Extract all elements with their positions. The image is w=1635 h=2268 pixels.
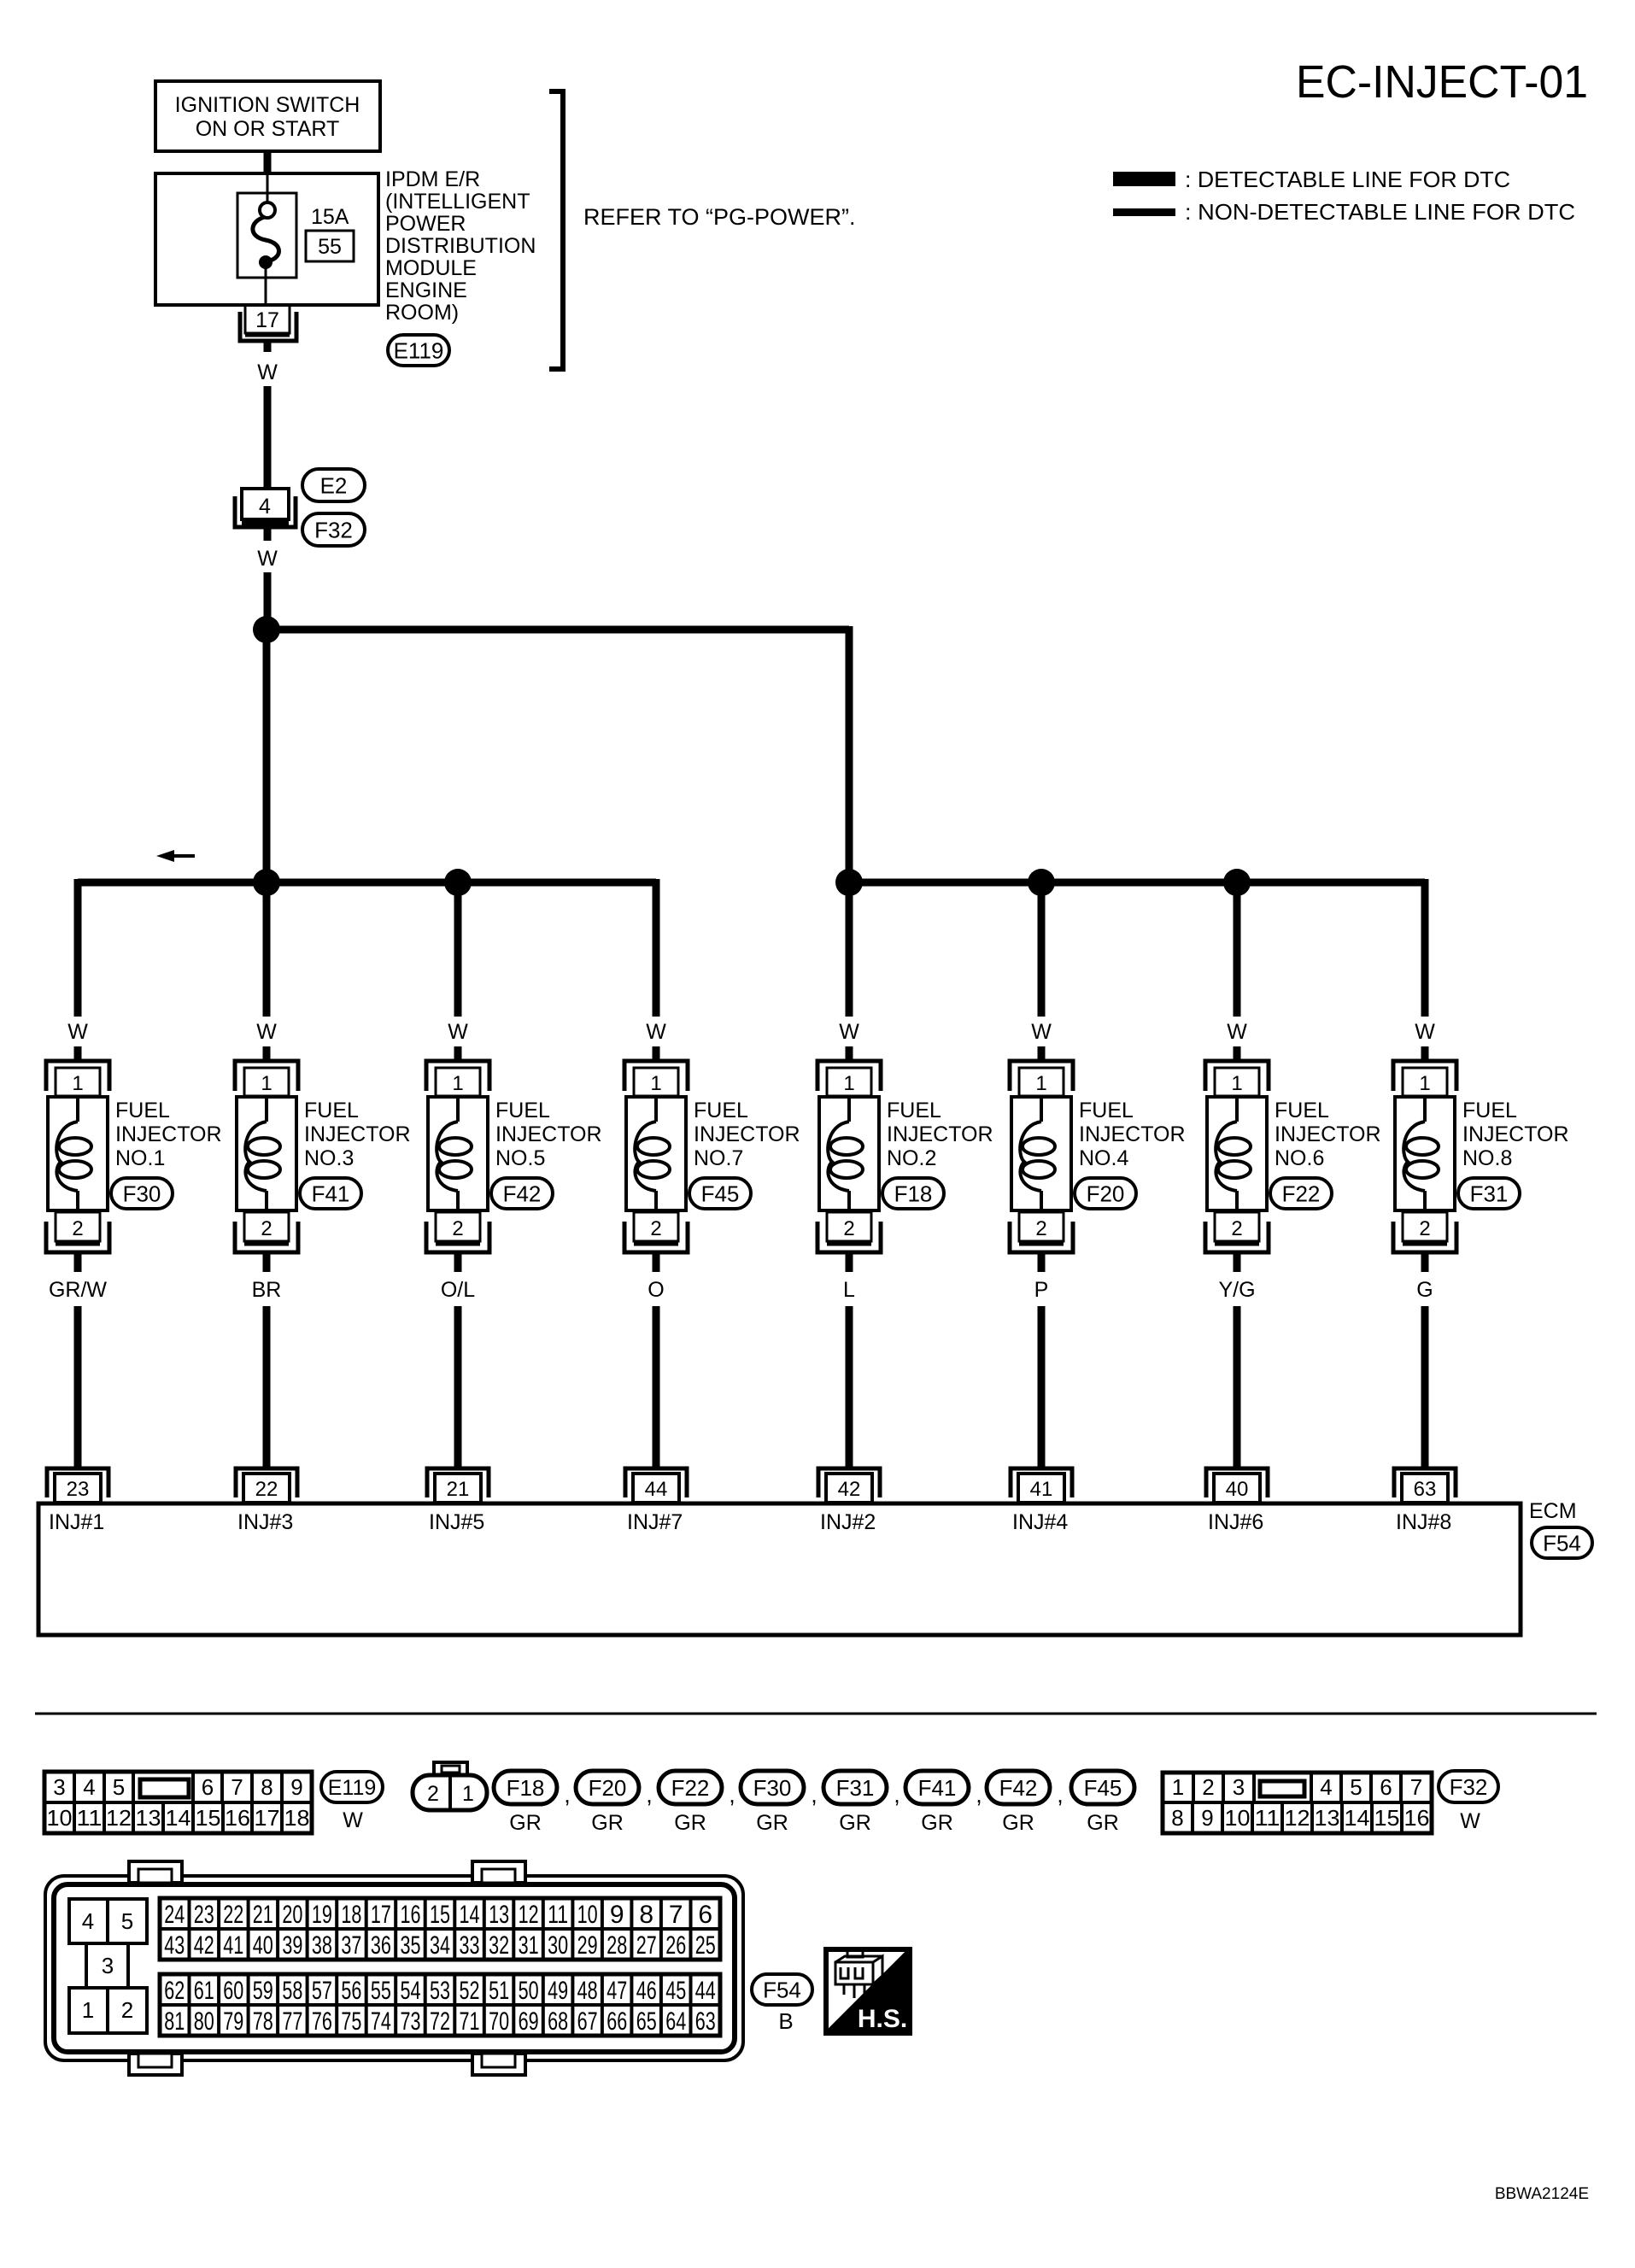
svg-text:NO.1: NO.1 <box>115 1146 165 1170</box>
wire GR/W below pin 2 (thick) <box>74 1252 82 1272</box>
label FUEL INJECTOR NO.2 <box>887 1099 993 1170</box>
svg-text:GR: GR <box>921 1811 953 1835</box>
oval connector F22 (view) <box>659 1771 722 1804</box>
svg-text:8: 8 <box>1171 1805 1183 1831</box>
svg-text:32: 32 <box>489 1931 509 1960</box>
svg-text:INJECTOR: INJECTOR <box>887 1122 993 1146</box>
svg-text:EC-INJECT-01: EC-INJECT-01 <box>1296 56 1588 108</box>
node junction dot main <box>253 616 280 643</box>
ECM connector pin 42 <box>818 1468 880 1503</box>
title EC-INJECT-01 <box>1296 56 1588 108</box>
label GR color of F30 <box>756 1811 788 1835</box>
fuel injector NO.2 coil <box>819 1097 879 1212</box>
comma separator <box>729 1782 735 1808</box>
label W wire color column 6 <box>1031 1020 1052 1044</box>
label wire color P <box>1034 1278 1049 1302</box>
svg-text:59: 59 <box>253 1977 273 2005</box>
svg-text:1: 1 <box>82 1997 94 2023</box>
svg-text:12: 12 <box>106 1805 132 1831</box>
fuse number box 55 <box>306 231 354 261</box>
legend label DETECTABLE LINE FOR DTC <box>1185 167 1510 192</box>
wire bus lower-right horizontal run (injectors 2,4,6,8) <box>849 879 1425 887</box>
svg-text:F30: F30 <box>753 1775 792 1801</box>
svg-text:F20: F20 <box>1087 1181 1125 1206</box>
connector pin 2 of fuel injector NO.7 <box>624 1212 688 1252</box>
svg-text:73: 73 <box>401 2007 421 2036</box>
svg-text:7: 7 <box>231 1774 243 1800</box>
label W wire color column 2 <box>256 1020 277 1044</box>
wire right branch vertical down <box>846 626 853 882</box>
svg-text:16: 16 <box>401 1901 421 1929</box>
label W color of E119 <box>343 1808 363 1832</box>
oval connector F42 (fuel injector NO.5) <box>491 1178 553 1209</box>
label FUEL INJECTOR NO.3 <box>304 1099 411 1170</box>
wire G to ECM pin 63 (thick) <box>1421 1306 1429 1470</box>
svg-text:11: 11 <box>548 1901 568 1929</box>
svg-text:F31: F31 <box>836 1775 875 1801</box>
connector view F32 pin grid <box>1163 1773 1432 1833</box>
svg-text:ON OR START: ON OR START <box>196 117 340 141</box>
svg-text:ROOM): ROOM) <box>385 301 459 325</box>
svg-text:F32: F32 <box>1450 1774 1488 1800</box>
svg-text:16: 16 <box>225 1805 250 1831</box>
ECM connector pin 1 box <box>69 1988 108 2033</box>
svg-text:35: 35 <box>401 1931 421 1960</box>
svg-text:5: 5 <box>121 1908 133 1934</box>
connector pin 1 of fuel injector NO.3 <box>235 1061 298 1096</box>
oval connector F32 (view) <box>1439 1771 1498 1802</box>
svg-text:,: , <box>811 1782 817 1808</box>
label FUEL INJECTOR NO.1 <box>115 1099 222 1170</box>
svg-text:46: 46 <box>636 1977 657 2005</box>
svg-text:W: W <box>256 1020 277 1044</box>
svg-text:5: 5 <box>113 1774 125 1800</box>
svg-text:E119: E119 <box>394 337 444 363</box>
svg-text:44: 44 <box>645 1478 668 1501</box>
svg-text:61: 61 <box>194 1977 214 2005</box>
comma separator <box>564 1782 571 1808</box>
svg-text:FUEL: FUEL <box>115 1099 170 1122</box>
connector pin 2 of fuel injector NO.6 <box>1205 1212 1269 1252</box>
svg-text:17: 17 <box>255 308 279 332</box>
svg-text:44: 44 <box>695 1977 716 2005</box>
svg-text:18: 18 <box>284 1805 310 1831</box>
node junction dot injector 3 branch <box>253 869 280 896</box>
oval connector F45 (view) <box>1071 1771 1134 1804</box>
svg-text:63: 63 <box>1414 1478 1437 1501</box>
svg-text:W: W <box>1460 1809 1480 1833</box>
connector pin 2 of fuel injector NO.1 <box>46 1212 109 1252</box>
svg-text:F41: F41 <box>312 1181 350 1206</box>
label W wire color (below connector 4) <box>257 547 278 571</box>
label W wire color column 3 <box>448 1020 468 1044</box>
label W wire color column 4 <box>646 1020 666 1044</box>
connector view 2-pin fuel injector <box>413 1762 487 1810</box>
svg-text:40: 40 <box>1226 1478 1249 1501</box>
svg-text:21: 21 <box>447 1478 470 1501</box>
wire O/L to ECM pin 21 (thick) <box>454 1306 462 1470</box>
svg-text:2: 2 <box>1231 1217 1242 1240</box>
connector pin 17 of IPDM <box>240 305 296 341</box>
fuel injector NO.5 coil <box>428 1097 488 1212</box>
svg-text:POWER: POWER <box>385 212 466 236</box>
label INJ#5 inside ECM <box>429 1510 484 1534</box>
svg-text:O/L: O/L <box>441 1278 475 1302</box>
svg-text:,: , <box>1057 1782 1064 1808</box>
svg-text:2: 2 <box>121 1997 133 2023</box>
legend label NON-DETECTABLE LINE FOR DTC <box>1185 199 1575 225</box>
svg-text:23: 23 <box>67 1478 90 1501</box>
oval connector E119 (IPDM) <box>388 335 449 366</box>
label FUEL INJECTOR NO.4 <box>1079 1099 1186 1170</box>
svg-text:GR: GR <box>591 1811 624 1835</box>
svg-text:FUEL: FUEL <box>887 1099 941 1122</box>
connector pin 2 of fuel injector NO.3 <box>235 1212 298 1252</box>
svg-text:3: 3 <box>102 1953 114 1978</box>
svg-text:F18: F18 <box>507 1775 545 1801</box>
wire W into pin 1 of injector NO.7 (thick) <box>653 1046 660 1062</box>
svg-text:6: 6 <box>698 1901 712 1929</box>
connector pin 2 of fuel injector NO.4 <box>1010 1212 1073 1252</box>
svg-text:W: W <box>1415 1020 1435 1044</box>
oval connector F54 (ECM) <box>1532 1527 1592 1558</box>
svg-text:Y/G: Y/G <box>1218 1278 1255 1302</box>
svg-text:15: 15 <box>196 1805 221 1831</box>
svg-text:56: 56 <box>341 1977 361 2005</box>
svg-text:NO.3: NO.3 <box>304 1146 354 1170</box>
label GR color of F18 <box>509 1811 542 1835</box>
svg-text:GR: GR <box>756 1811 788 1835</box>
svg-text:2: 2 <box>72 1217 83 1240</box>
oval connector F54 (view) <box>752 1974 812 2005</box>
svg-text:,: , <box>564 1782 571 1808</box>
wire bus vertical main down to lower bus <box>263 630 271 882</box>
svg-text:GR: GR <box>674 1811 706 1835</box>
wire BR below pin 2 (thick) <box>263 1252 271 1272</box>
wire O/L below pin 2 (thick) <box>454 1252 462 1272</box>
H.S. harness side view icon <box>826 1949 910 2033</box>
ECM connector pin 2 box <box>108 1988 147 2033</box>
svg-text:F54: F54 <box>1543 1530 1581 1556</box>
svg-text:W: W <box>1031 1020 1052 1044</box>
svg-text:55: 55 <box>371 1977 391 2005</box>
ECM connector pin 21 <box>427 1468 489 1503</box>
svg-text:58: 58 <box>282 1977 302 2005</box>
svg-text:9: 9 <box>1201 1805 1213 1831</box>
svg-text:F30: F30 <box>123 1181 161 1206</box>
svg-text:,: , <box>976 1782 982 1808</box>
svg-text:57: 57 <box>312 1977 332 2005</box>
svg-text:2: 2 <box>427 1782 439 1806</box>
svg-text:O: O <box>648 1278 664 1302</box>
svg-text:GR/W: GR/W <box>49 1278 107 1302</box>
label wire color GR/W <box>49 1278 107 1302</box>
svg-text:F20: F20 <box>589 1775 627 1801</box>
wire W to connector E2/F32 (thick) <box>264 386 272 489</box>
svg-text:11: 11 <box>77 1805 103 1831</box>
svg-text:15: 15 <box>1374 1805 1400 1831</box>
ECM connector pin 23 <box>47 1468 108 1503</box>
svg-text:26: 26 <box>665 1931 686 1960</box>
svg-text:INJ#5: INJ#5 <box>429 1510 484 1534</box>
svg-text:F22: F22 <box>671 1775 710 1801</box>
node junction dot injector 5 branch <box>444 869 472 896</box>
IPDM E/R box <box>155 173 378 305</box>
svg-text:4: 4 <box>1320 1774 1332 1800</box>
svg-text:15A: 15A <box>311 205 349 229</box>
label B color of F54 <box>778 2008 793 2034</box>
label IPDM E/R description <box>385 167 536 325</box>
wire P below pin 2 (thick) <box>1038 1252 1046 1272</box>
oval connector F30 (view) <box>741 1771 804 1804</box>
ECM connector pin 40 <box>1206 1468 1268 1503</box>
svg-text:53: 53 <box>430 1977 450 2005</box>
wire W bus drop to fuel injector NO.2 (thick) <box>846 879 853 1017</box>
svg-text:55: 55 <box>318 235 342 259</box>
wire W into pin 1 of injector NO.3 (thick) <box>263 1046 271 1062</box>
svg-text:FUEL: FUEL <box>304 1099 359 1122</box>
oval connector F42 (view) <box>987 1771 1050 1804</box>
label GR color of F31 <box>839 1811 871 1835</box>
connector pin 4 E2/F32 junction <box>235 489 296 527</box>
svg-text:W: W <box>257 360 278 384</box>
svg-text:3: 3 <box>53 1774 65 1800</box>
svg-text:F45: F45 <box>701 1181 740 1206</box>
svg-text:G: G <box>1416 1278 1433 1302</box>
label FUEL INJECTOR NO.8 <box>1462 1099 1569 1170</box>
svg-text:P: P <box>1034 1278 1049 1302</box>
svg-text:27: 27 <box>636 1931 657 1960</box>
comma separator <box>646 1782 653 1808</box>
label INJ#4 inside ECM <box>1012 1510 1068 1534</box>
svg-text:F41: F41 <box>918 1775 957 1801</box>
wire bus lower-left horizontal run (injectors 1,3,5,7) <box>78 879 656 887</box>
oval connector F22 (fuel injector NO.6) <box>1270 1178 1332 1209</box>
label ECM <box>1529 1499 1577 1523</box>
svg-text:60: 60 <box>223 1977 243 2005</box>
label FUEL INJECTOR NO.7 <box>694 1099 800 1170</box>
svg-text:2: 2 <box>650 1217 661 1240</box>
fuel injector NO.6 coil <box>1207 1097 1267 1212</box>
svg-text:: NON-DETECTABLE LINE FOR DTC: : NON-DETECTABLE LINE FOR DTC <box>1185 199 1575 225</box>
oval connector F20 (fuel injector NO.4) <box>1075 1178 1136 1209</box>
svg-text:FUEL: FUEL <box>694 1099 748 1122</box>
oval connector F31 (view) <box>823 1771 887 1804</box>
oval connector F30 (fuel injector NO.1) <box>111 1178 173 1209</box>
fuel injector NO.3 coil <box>237 1097 296 1212</box>
svg-text:INJECTOR: INJECTOR <box>304 1122 411 1146</box>
svg-text:F22: F22 <box>1282 1181 1321 1206</box>
label GR color of F20 <box>591 1811 624 1835</box>
svg-text:2: 2 <box>843 1217 854 1240</box>
svg-text:7: 7 <box>1410 1774 1422 1800</box>
label INJ#2 inside ECM <box>820 1510 876 1534</box>
ECM connector bottom tab left <box>129 2054 182 2075</box>
svg-text:F31: F31 <box>1470 1181 1509 1206</box>
svg-text:5: 5 <box>1350 1774 1362 1800</box>
svg-text:NO.6: NO.6 <box>1275 1146 1324 1170</box>
svg-text:INJECTOR: INJECTOR <box>1275 1122 1381 1146</box>
svg-text:1: 1 <box>1419 1072 1430 1095</box>
connector pin 1 of fuel injector NO.5 <box>426 1061 489 1096</box>
node junction dot injector 2 branch <box>835 869 863 896</box>
svg-text:8: 8 <box>261 1774 272 1800</box>
svg-text:H.S.: H.S. <box>858 2005 907 2033</box>
svg-text:2: 2 <box>1202 1774 1214 1800</box>
svg-text:16: 16 <box>1404 1805 1430 1831</box>
wire W bus drop to fuel injector NO.8 (thick) <box>1421 879 1429 1017</box>
wire inside IPDM to fuse (thin) <box>267 175 269 202</box>
svg-text:4: 4 <box>83 1774 95 1800</box>
wire fuse to pin 17 (thin) <box>265 268 267 305</box>
wire W bus drop to fuel injector NO.6 (thick) <box>1234 879 1241 1017</box>
ECM connector view outer shell <box>45 1876 743 2060</box>
svg-text:1: 1 <box>452 1072 463 1095</box>
connector pin 2 of fuel injector NO.5 <box>426 1212 489 1252</box>
svg-text:W: W <box>343 1808 363 1832</box>
svg-text:6: 6 <box>202 1774 214 1800</box>
svg-text:INJ#4: INJ#4 <box>1012 1510 1068 1534</box>
label INJ#7 inside ECM <box>627 1510 683 1534</box>
ECM connector pin 5 box <box>108 1899 147 1943</box>
svg-text:13: 13 <box>489 1901 509 1929</box>
svg-text:W: W <box>839 1020 859 1044</box>
label FUEL INJECTOR NO.5 <box>495 1099 602 1170</box>
wire bus horizontal top run to right branch <box>267 626 849 634</box>
part number BBWA2124E <box>1495 2185 1589 2203</box>
label REFER TO PG-POWER <box>583 204 856 230</box>
oval connector F41 (fuel injector NO.3) <box>300 1178 361 1209</box>
connector pin 1 of fuel injector NO.2 <box>817 1061 881 1096</box>
label wire color BR <box>252 1278 282 1302</box>
wire W bus drop to fuel injector NO.7 (thick) <box>653 879 660 1017</box>
svg-text:2: 2 <box>1035 1217 1046 1240</box>
label GR color of F41 <box>921 1811 953 1835</box>
svg-text:3: 3 <box>1233 1774 1245 1800</box>
fuel injector NO.1 coil <box>48 1097 108 1212</box>
svg-text:F18: F18 <box>894 1181 933 1206</box>
svg-text:F54: F54 <box>763 1977 801 2002</box>
svg-text:F42: F42 <box>503 1181 542 1206</box>
svg-text:67: 67 <box>577 2007 598 2036</box>
svg-text:34: 34 <box>430 1931 450 1960</box>
svg-text:INJECTOR: INJECTOR <box>1462 1122 1569 1146</box>
svg-text:42: 42 <box>838 1478 861 1501</box>
wire W into pin 1 of injector NO.2 (thick) <box>846 1046 853 1062</box>
oval connector F20 (view) <box>576 1771 639 1804</box>
wire Y/G below pin 2 (thick) <box>1234 1252 1241 1272</box>
svg-text:38: 38 <box>312 1931 332 1960</box>
wire W bus drop to fuel injector NO.5 (thick) <box>454 879 462 1017</box>
svg-text:22: 22 <box>255 1478 278 1501</box>
comma separator <box>1057 1782 1064 1808</box>
svg-text:12: 12 <box>1285 1805 1310 1831</box>
svg-text:6: 6 <box>1380 1774 1392 1800</box>
svg-text:E2: E2 <box>320 472 348 498</box>
svg-text:62: 62 <box>164 1977 185 2005</box>
comma separator <box>811 1782 817 1808</box>
arrow to preceding page <box>156 850 195 862</box>
svg-text:68: 68 <box>548 2007 568 2036</box>
svg-text:BR: BR <box>252 1278 282 1302</box>
svg-text:L: L <box>843 1278 855 1302</box>
svg-text:1: 1 <box>650 1072 661 1095</box>
connector pin 2 of fuel injector NO.2 <box>817 1212 881 1252</box>
svg-text:39: 39 <box>282 1931 302 1960</box>
connector view E119 pin grid <box>44 1772 312 1833</box>
svg-text:NO.7: NO.7 <box>694 1146 743 1170</box>
svg-text:79: 79 <box>223 2007 243 2036</box>
svg-text:INJ#1: INJ#1 <box>49 1510 104 1534</box>
svg-text:MODULE: MODULE <box>385 256 477 280</box>
svg-text:2: 2 <box>452 1217 463 1240</box>
svg-text:47: 47 <box>607 1977 627 2005</box>
svg-text:F45: F45 <box>1084 1775 1122 1801</box>
connector pin 1 of fuel injector NO.8 <box>1393 1061 1456 1096</box>
svg-text:INJ#6: INJ#6 <box>1208 1510 1263 1534</box>
wire BR to ECM pin 22 (thick) <box>263 1306 271 1470</box>
svg-text:9: 9 <box>290 1774 302 1800</box>
svg-text:13: 13 <box>1315 1805 1340 1831</box>
svg-text:17: 17 <box>371 1901 391 1929</box>
svg-text:31: 31 <box>519 1931 539 1960</box>
svg-text:76: 76 <box>312 2007 332 2036</box>
ECM connector pin 44 <box>625 1468 687 1503</box>
svg-text:41: 41 <box>1030 1478 1053 1501</box>
ECM connector pin 3 box <box>86 1943 128 1988</box>
label W wire color column 8 <box>1415 1020 1435 1044</box>
ECM connector pin 22 <box>236 1468 297 1503</box>
svg-text:INJ#8: INJ#8 <box>1396 1510 1451 1534</box>
svg-text:FUEL: FUEL <box>1079 1099 1134 1122</box>
svg-text:IGNITION SWITCH: IGNITION SWITCH <box>175 93 360 117</box>
svg-text:15: 15 <box>430 1901 450 1929</box>
svg-text:75: 75 <box>341 2007 361 2036</box>
fuse 15A symbol <box>253 202 279 269</box>
svg-text:1: 1 <box>261 1072 272 1095</box>
svg-text:7: 7 <box>669 1901 683 1929</box>
svg-text:69: 69 <box>519 2007 539 2036</box>
svg-text:BBWA2124E: BBWA2124E <box>1495 2185 1589 2203</box>
wire G below pin 2 (thick) <box>1421 1252 1429 1272</box>
wire P to ECM pin 41 (thick) <box>1038 1306 1046 1470</box>
svg-text:GR: GR <box>839 1811 871 1835</box>
svg-text:80: 80 <box>194 2007 214 2036</box>
label INJ#3 inside ECM <box>237 1510 293 1534</box>
label INJ#8 inside ECM <box>1396 1510 1451 1534</box>
oval connector F32 <box>302 513 365 546</box>
svg-text:22: 22 <box>223 1901 243 1929</box>
svg-text:(INTELLIGENT: (INTELLIGENT <box>385 190 530 214</box>
separator line <box>35 1713 1597 1715</box>
svg-text:ENGINE: ENGINE <box>385 278 467 302</box>
label INJ#6 inside ECM <box>1208 1510 1263 1534</box>
label W wire color column 7 <box>1227 1020 1247 1044</box>
bracket refer to PG-POWER <box>549 91 563 369</box>
svg-text:NO.8: NO.8 <box>1462 1146 1512 1170</box>
svg-text:64: 64 <box>665 2007 686 2036</box>
svg-text:20: 20 <box>282 1901 302 1929</box>
fuel injector NO.8 coil <box>1395 1097 1455 1212</box>
svg-text:37: 37 <box>341 1931 361 1960</box>
connector pin 2 of fuel injector NO.8 <box>1393 1212 1456 1252</box>
svg-text:1: 1 <box>1172 1774 1184 1800</box>
svg-text:24: 24 <box>164 1901 185 1929</box>
wire W to junction node (thick) <box>264 572 272 630</box>
svg-text:48: 48 <box>577 1977 598 2005</box>
ECM box <box>38 1503 1521 1635</box>
svg-text:14: 14 <box>460 1901 480 1929</box>
